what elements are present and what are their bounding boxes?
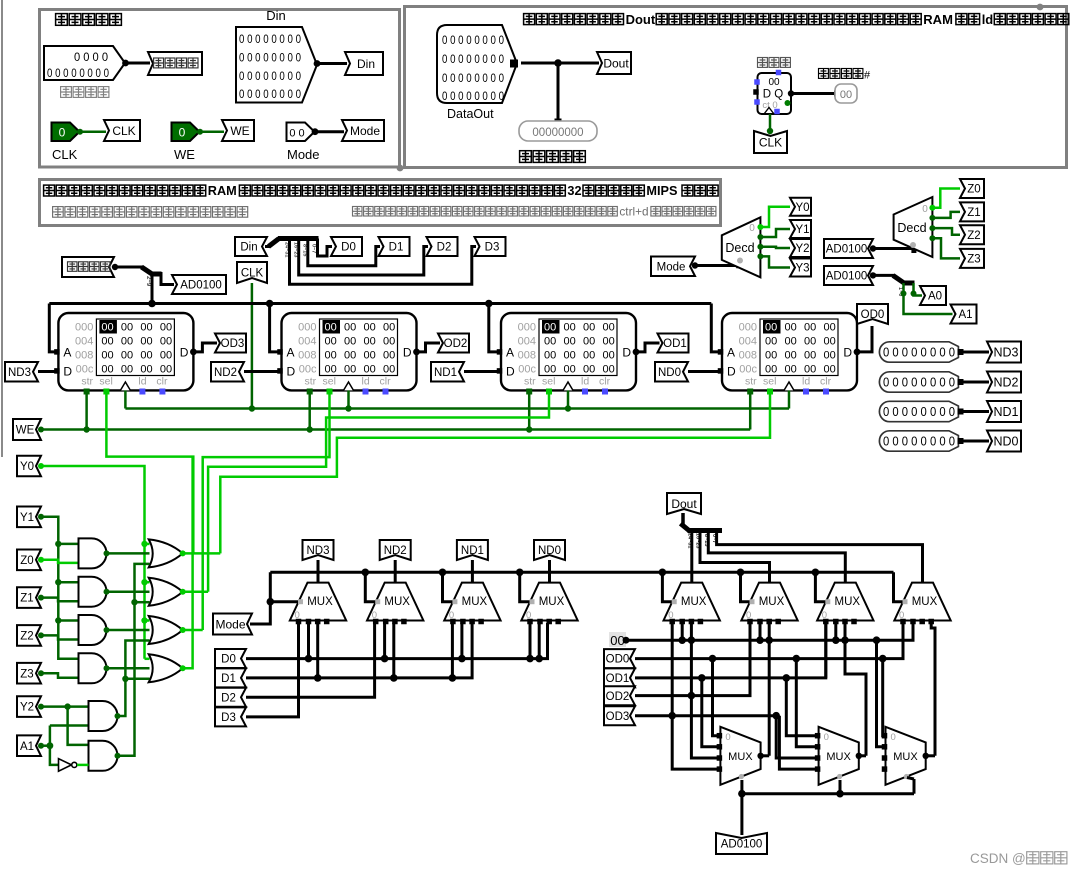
svg-text:00: 00	[364, 336, 376, 348]
RAM chip U1	[58, 313, 193, 390]
svg-text:00: 00	[583, 322, 595, 334]
wire ND0 to chip4 D	[688, 370, 719, 373]
svg-text:MUX: MUX	[826, 751, 851, 763]
input pin 字节地址 (12-bit)	[44, 46, 125, 80]
svg-text:008: 008	[75, 350, 93, 362]
svg-text:D2: D2	[437, 242, 452, 254]
wire Y1 to AND2 in1	[58, 581, 78, 584]
tunnel OD0 above chip4	[857, 304, 888, 324]
input pin WE	[172, 123, 200, 142]
svg-text:0 0 0 0 0 0 0 0: 0 0 0 0 0 0 0 0	[883, 376, 955, 390]
svg-text:00: 00	[121, 350, 133, 362]
svg-text:00: 00	[344, 350, 356, 362]
svg-text:00: 00	[121, 364, 133, 376]
wire AND G2 out to OR in2	[107, 590, 150, 593]
svg-text:00: 00	[140, 350, 152, 362]
wire Y2 to AND5 and AND6	[41, 705, 89, 708]
svg-text:ND3: ND3	[8, 367, 31, 379]
RAM chip U4	[722, 313, 857, 390]
tunnel ND0 source	[987, 431, 1021, 452]
wire select bus drop	[443, 572, 454, 601]
svg-text:00: 00	[101, 364, 113, 376]
multiplexer M4	[521, 583, 577, 621]
svg-text:A1: A1	[20, 741, 34, 753]
multiplexer M8	[894, 583, 950, 621]
wire Z3 to AND4 in2	[41, 673, 79, 678]
svg-text:str: str	[305, 376, 317, 388]
tunnel OD1 lower	[604, 668, 635, 687]
tunnel D1	[379, 237, 410, 256]
wire lower select line	[742, 792, 914, 795]
wire clk chip4	[788, 390, 791, 408]
svg-text:00: 00	[824, 322, 836, 334]
svg-text:Z3: Z3	[20, 668, 33, 680]
svg-text:00: 00	[583, 336, 595, 348]
OR gate O1	[149, 539, 183, 567]
wire OD1 down MUXb1	[786, 678, 816, 736]
description line1	[44, 185, 55, 196]
svg-text:00: 00	[101, 336, 113, 348]
svg-text:0 0 0 0 0 0 0 0: 0 0 0 0 0 0 0 0	[883, 435, 955, 449]
input pin CLK	[52, 123, 80, 142]
tunnel Z1 left	[17, 587, 41, 608]
wire ND0 mux output	[548, 560, 551, 583]
wire Mode to MUX1 select	[270, 600, 299, 603]
wire MUX3 in drops	[451, 623, 454, 678]
wire probe to ND2	[958, 381, 989, 384]
svg-text:00: 00	[383, 364, 395, 376]
svg-text:008: 008	[739, 350, 757, 362]
svg-text:#: #	[864, 70, 871, 82]
svg-text:0: 0	[59, 126, 66, 140]
multiplexer M7	[817, 583, 873, 621]
wire input to tunnel	[125, 62, 150, 65]
svg-text:MUX: MUX	[681, 596, 707, 608]
tunnel Mode input box	[342, 120, 384, 141]
svg-text:00: 00	[325, 336, 337, 348]
tunnel OD2	[438, 334, 469, 353]
svg-text:00: 00	[544, 322, 556, 334]
panel border test box	[405, 7, 1067, 168]
wire chip2 D to OD2	[417, 343, 441, 352]
svg-text:Mode: Mode	[215, 617, 245, 631]
wire MUX6 in3 MUXa out	[768, 623, 771, 756]
splitter byte address 2-9	[142, 267, 153, 274]
svg-text:RAM: RAM	[208, 184, 237, 198]
svg-text:0: 0	[179, 126, 186, 140]
svg-text:A: A	[727, 346, 735, 360]
tunnel D0	[331, 237, 362, 256]
splitter Din 4x8	[269, 239, 280, 247]
svg-text:D: D	[506, 365, 515, 379]
svg-text:0 0 0 0 0 0 0 0: 0 0 0 0 0 0 0 0	[883, 405, 955, 419]
svg-text:D: D	[63, 365, 72, 379]
label 输出引脚区	[520, 151, 532, 163]
wire AD bus drop chip3 A	[489, 304, 498, 352]
svg-text:str: str	[745, 376, 757, 388]
AND gate G3	[79, 615, 107, 645]
svg-text:Y1: Y1	[20, 512, 34, 524]
multiplexer M3	[444, 583, 500, 621]
wire OR4 out to column	[183, 457, 193, 669]
tunnel ND2 above mux	[380, 540, 411, 560]
wire D2 line	[246, 623, 375, 697]
tunnel ND0 above mux	[534, 540, 565, 560]
svg-text:MIPS: MIPS	[646, 184, 677, 198]
svg-text:MUX: MUX	[759, 596, 785, 608]
multiplexer M2	[367, 583, 423, 621]
wire Y0 distribution	[41, 466, 145, 659]
svg-text:00: 00	[544, 350, 556, 362]
svg-text:0 0: 0 0	[289, 128, 304, 140]
svg-text:A1: A1	[958, 309, 972, 321]
wire OD0 down MUXc1	[881, 659, 884, 736]
svg-text:Z0: Z0	[20, 555, 33, 567]
tunnel OD1	[658, 334, 689, 353]
svg-text:ND2: ND2	[993, 376, 1018, 390]
svg-text:D: D	[403, 346, 412, 360]
svg-text:Dout: Dout	[603, 56, 629, 70]
label 计数器	[758, 58, 768, 68]
wire sel chip3 from OR2	[208, 392, 549, 592]
svg-text:OD1: OD1	[606, 673, 630, 685]
note text 为方便测试 line	[524, 14, 535, 25]
wire sel chip4 from OR1	[220, 392, 770, 553]
multiplexer M5	[664, 583, 720, 621]
svg-text:0: 0	[725, 732, 730, 743]
wire chip3 D to OD1	[636, 343, 660, 352]
tunnel Y2 left	[17, 696, 41, 717]
wire Mode to select bus	[250, 572, 270, 624]
wire ND2 to chip2 D	[244, 370, 278, 373]
probe output byte ND3	[879, 342, 958, 362]
tunnel OD2 lower	[604, 686, 635, 705]
svg-text:D: D	[622, 346, 631, 360]
wire MUX7 in3 MUXb out	[845, 623, 866, 756]
svg-text:00: 00	[160, 350, 172, 362]
svg-text:0 0 0 0 0 0 0 0: 0 0 0 0 0 0 0 0	[883, 346, 955, 360]
svg-text:Z2: Z2	[967, 230, 980, 242]
svg-text:00: 00	[160, 322, 172, 334]
svg-text:sel: sel	[542, 376, 555, 388]
wire ND3 to chip1 D	[38, 370, 55, 373]
label 测试用例#	[819, 69, 829, 79]
svg-text:OD2: OD2	[444, 338, 468, 350]
wire select bus drop	[365, 572, 376, 601]
wire AND G3 out to OR in2	[107, 629, 150, 632]
wire OD3 line	[635, 714, 779, 717]
svg-text:00: 00	[564, 350, 576, 362]
svg-text:0 0 0 0 0 0 0 0: 0 0 0 0 0 0 0 0	[239, 89, 301, 101]
svg-text:D: D	[180, 346, 189, 360]
wire CLK pin to tunnel	[80, 130, 107, 133]
wire Z decoder out2	[932, 228, 960, 235]
svg-text:00: 00	[564, 336, 576, 348]
tunnel Y1 left	[17, 507, 41, 528]
svg-text:0 0 0 0 0 0 0 0: 0 0 0 0 0 0 0 0	[442, 73, 504, 85]
svg-text:008: 008	[298, 350, 316, 362]
svg-text:0: 0	[922, 204, 928, 215]
svg-text:ND3: ND3	[306, 545, 329, 557]
svg-text:Mode: Mode	[657, 261, 686, 273]
svg-text:OD0: OD0	[861, 309, 885, 321]
svg-text:00c: 00c	[76, 364, 94, 376]
svg-text:0 0 0 0 0 0 0 0: 0 0 0 0 0 0 0 0	[239, 34, 301, 46]
svg-text:00: 00	[785, 350, 797, 362]
svg-text:00: 00	[383, 322, 395, 334]
svg-text:0 0 0 0 0 0 0 0: 0 0 0 0 0 0 0 0	[47, 68, 109, 80]
svg-text:00: 00	[603, 364, 615, 376]
svg-text:ND3: ND3	[993, 346, 1018, 360]
probe 00 testcase	[835, 84, 857, 103]
tunnel A0	[920, 286, 946, 305]
OR gate O2	[149, 578, 183, 606]
svg-text:00c: 00c	[518, 364, 536, 376]
wire probe to ND3	[958, 351, 989, 354]
splitter A0A1	[893, 275, 904, 283]
svg-text:ctrl+d: ctrl+d	[619, 205, 648, 219]
multiplexer Ma east	[720, 727, 760, 785]
svg-text:str: str	[81, 376, 93, 388]
svg-text:00: 00	[160, 336, 172, 348]
svg-text:0 0 0 0 0 0 0 0: 0 0 0 0 0 0 0 0	[442, 35, 504, 47]
svg-text:ND0: ND0	[538, 545, 561, 557]
svg-text:Y0: Y0	[20, 461, 34, 473]
wire splitter leg to AD bus	[151, 272, 154, 305]
svg-text:clr: clr	[599, 376, 611, 388]
wire select bus drop	[815, 572, 826, 601]
wire Z decoder out0	[932, 189, 960, 208]
tunnel Z2 left	[17, 625, 41, 646]
svg-text:ld: ld	[362, 376, 370, 388]
svg-text:AD0100: AD0100	[826, 271, 868, 283]
wire MUXc select	[913, 779, 916, 794]
wire clk chip3	[567, 390, 570, 408]
svg-text:00c: 00c	[739, 364, 757, 376]
wire MUX7 in1 OD1	[824, 623, 827, 678]
svg-text:00: 00	[140, 322, 152, 334]
counter component	[758, 73, 792, 114]
wire OD3 down MUXb4	[779, 716, 816, 769]
wire Y decoder out0	[760, 207, 790, 227]
wire Y decoder out3	[760, 256, 790, 267]
svg-text:A: A	[506, 346, 514, 360]
wire str chip3	[528, 392, 531, 430]
svg-text:00: 00	[121, 322, 133, 334]
wire MUX8 in4 MUXc out	[931, 623, 935, 756]
svg-text:Z3: Z3	[967, 254, 980, 266]
AND gate G6 halfword	[89, 741, 118, 771]
tunnel ND1 above mux	[457, 540, 488, 560]
wire Y decoder out2	[760, 247, 790, 248]
AND gate G5 halfword	[89, 701, 118, 731]
svg-text:0~7: 0~7	[311, 244, 317, 253]
svg-text:WE: WE	[230, 124, 249, 138]
wire MUX2 in drops	[383, 623, 386, 659]
wire MUX4 in drops	[529, 623, 532, 659]
svg-text:D0: D0	[221, 654, 236, 666]
svg-text:ld: ld	[982, 12, 994, 27]
svg-text:Y2: Y2	[795, 243, 809, 255]
wire NOT out to G6 in2	[77, 764, 89, 767]
svg-text:00: 00	[344, 364, 356, 376]
svg-text:WE: WE	[16, 425, 35, 437]
tunnel Mode mid	[651, 257, 695, 277]
wire MUX5 in3 OD2 MUXa3	[691, 623, 718, 758]
wire MUX7 in2 00	[834, 623, 837, 640]
svg-text:OD1: OD1	[663, 338, 687, 350]
svg-text:MUX: MUX	[728, 751, 753, 763]
AND gate G1	[79, 538, 107, 568]
svg-text:00: 00	[603, 350, 615, 362]
wire A1 net	[41, 744, 50, 747]
tunnel D3	[475, 237, 506, 256]
wire DataOut to Dout tunnel	[521, 62, 599, 65]
wire D1 line	[246, 623, 472, 678]
svg-text:ld: ld	[138, 376, 146, 388]
wire AD bus drop chip4 A	[711, 304, 718, 352]
wire ND1 to chip3 D	[464, 370, 498, 373]
svg-text:AD0100: AD0100	[826, 244, 868, 256]
svg-text:OD0: OD0	[606, 654, 630, 666]
tunnel Z3 left	[17, 663, 41, 684]
tunnel ND1 chip feed	[431, 362, 464, 382]
svg-text:004: 004	[518, 336, 536, 348]
svg-text:Dout: Dout	[626, 12, 656, 27]
svg-text:OD3: OD3	[606, 711, 630, 723]
svg-text:00: 00	[325, 364, 337, 376]
tunnel D1 lower	[215, 668, 246, 687]
wire AD0100 to bit splitter	[873, 274, 894, 277]
output pin DataOut (32-bit)	[437, 25, 517, 103]
svg-text:004: 004	[739, 336, 757, 348]
wire MUX6 in2 00	[759, 623, 762, 640]
svg-text:D: D	[843, 346, 852, 360]
tunnel Din mid	[235, 237, 267, 256]
wire WE pin to tunnel	[200, 130, 225, 133]
wire Y0 to OR4 in1	[145, 658, 150, 661]
svg-text:Y2: Y2	[20, 702, 34, 714]
svg-text:D3: D3	[221, 712, 236, 724]
svg-text:CLK: CLK	[52, 147, 78, 162]
decoder Y (Decd)	[722, 217, 761, 277]
svg-text:sel: sel	[99, 376, 112, 388]
svg-text:MUX: MUX	[835, 596, 861, 608]
wire Z1 to AND2 in2	[41, 598, 79, 602]
svg-text:0 0 0 0 0 0 0 0: 0 0 0 0 0 0 0 0	[239, 71, 301, 83]
panel border input-pin box	[40, 10, 400, 168]
tunnel Y3 out	[790, 259, 811, 277]
svg-text:00: 00	[544, 336, 556, 348]
svg-text:Y1: Y1	[795, 224, 809, 236]
wire chip4 D to OD0	[857, 326, 872, 352]
wire Y1 distribution	[41, 517, 79, 659]
tunnel 字节地址 mid	[62, 257, 114, 277]
wire Din bit8-15 to D1	[308, 239, 380, 266]
svg-text:00: 00	[101, 322, 113, 334]
svg-text:sel: sel	[763, 376, 776, 388]
input pin Mode	[287, 123, 315, 142]
svg-text:004: 004	[75, 336, 93, 348]
wire Dout leg4 to MUX8	[717, 531, 923, 583]
svg-text:00: 00	[610, 633, 624, 648]
tunnel Z0 out	[960, 179, 984, 198]
svg-text:A0: A0	[928, 291, 942, 303]
svg-text:000: 000	[518, 322, 536, 334]
tunnel Z2 out	[960, 225, 984, 244]
tunnel D3 lower	[215, 707, 246, 726]
wire select bus drop MUX8	[894, 572, 904, 601]
svg-text:Y0: Y0	[795, 202, 809, 214]
wire select bus drop	[520, 572, 531, 601]
wire D3 line	[246, 623, 299, 717]
svg-text:OD3: OD3	[221, 338, 245, 350]
wire MUX5 in2 00	[681, 623, 684, 640]
wire MUXa select	[740, 780, 743, 835]
svg-text:Z2: Z2	[20, 631, 33, 643]
svg-text:00: 00	[101, 350, 113, 362]
wire splitter to A1	[904, 283, 953, 314]
multiplexer Mb east	[819, 727, 859, 785]
wire byte addr to splitter	[114, 266, 143, 269]
tunnel CLK mid	[237, 262, 267, 283]
multiplexer M6	[741, 583, 797, 621]
wire MUX6 in1 OD2	[749, 623, 752, 696]
decoder Z (Decd)	[894, 197, 933, 257]
tunnel OD3 lower	[604, 706, 635, 725]
tunnel ND3 chip feed	[5, 362, 38, 382]
svg-text:RAM: RAM	[923, 12, 953, 27]
svg-text:MUX: MUX	[307, 596, 333, 608]
wire OD1 line	[635, 623, 826, 678]
svg-text:clr: clr	[380, 376, 392, 388]
svg-text:00: 00	[364, 350, 376, 362]
svg-text:MUX: MUX	[384, 596, 410, 608]
wire MUXb output	[859, 754, 866, 757]
tunnel OD3	[215, 334, 246, 353]
svg-text:00: 00	[160, 364, 172, 376]
svg-text:AD0100: AD0100	[180, 280, 222, 292]
tunnel Y2 out	[790, 239, 811, 257]
tunnel D0 lower	[215, 649, 246, 668]
svg-text:00: 00	[804, 364, 816, 376]
wire ND2 mux output	[394, 560, 397, 583]
svg-text:00: 00	[824, 350, 836, 362]
wire Y1 to AND1 in1	[58, 543, 78, 546]
wire chip1 D to OD3	[193, 343, 217, 352]
svg-text:ND1: ND1	[461, 545, 484, 557]
tunnel ND0 chip feed	[655, 362, 688, 382]
tunnel D2 lower	[215, 688, 246, 707]
label 字节地址 gray	[61, 87, 72, 98]
svg-text:000: 000	[298, 322, 316, 334]
svg-text:ND0: ND0	[993, 435, 1018, 449]
wire Mode to Y decoder	[695, 264, 739, 267]
wire WE line horizontal	[41, 428, 750, 431]
wire Dout leg2 to MUX6	[700, 531, 770, 583]
svg-text:CLK: CLK	[241, 268, 264, 280]
tunnel Mode lower-left	[213, 614, 252, 635]
wire CLK distribution vertical	[251, 283, 254, 409]
svg-text:008: 008	[518, 350, 536, 362]
tunnel CLK input box	[104, 120, 140, 141]
wire ND1 mux output	[471, 560, 474, 583]
wire Din to splitter	[265, 245, 270, 248]
wire MUX8 in1 OD0	[902, 623, 905, 659]
wire probe to ND0	[958, 440, 989, 443]
OR gate O3	[149, 616, 183, 644]
svg-text:0 0 0 0 0 0 0 0: 0 0 0 0 0 0 0 0	[239, 53, 301, 65]
